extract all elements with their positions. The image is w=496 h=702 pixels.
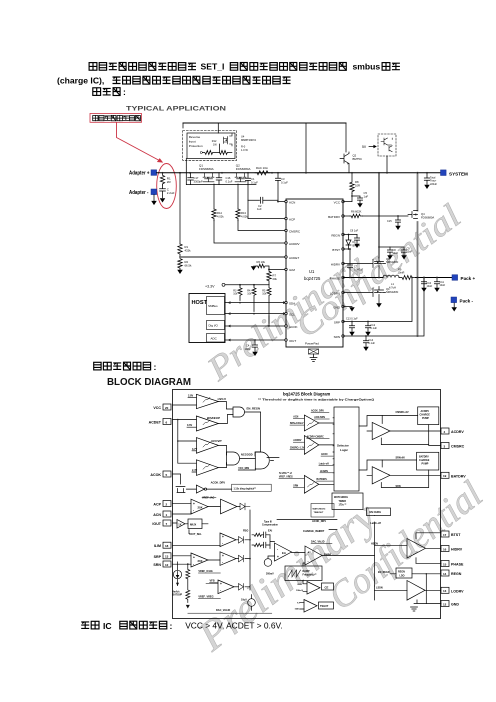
resistor R14 gate	[212, 209, 216, 221]
resistor R3 10k	[238, 285, 242, 301]
svg-text:Adapter +: Adapter +	[129, 171, 150, 177]
comparator WAKEUP	[196, 416, 218, 431]
wire ACDRV	[214, 220, 286, 243]
Selector Logic box	[334, 407, 359, 491]
svg-text:RAC 10m: RAC 10m	[256, 166, 269, 170]
svg-text:10mR: 10mR	[398, 271, 405, 275]
pin GND right	[441, 601, 449, 607]
pin BATDRV	[342, 215, 344, 217]
svg-text:SiR622DN: SiR622DN	[386, 290, 398, 294]
diode C	[239, 584, 244, 591]
svg-text:PHASE: PHASE	[330, 276, 340, 280]
pin REGN right	[441, 570, 449, 576]
resistor R4 10k	[252, 285, 256, 312]
svg-text:ACOVP: ACOVP	[210, 439, 222, 443]
resistor R9 sense	[399, 276, 416, 280]
svg-text:HIDRV: HIDRV	[331, 262, 340, 266]
svg-text:BAT54: BAT54	[353, 244, 361, 247]
svg-text:TIMEOUT: TIMEOUT	[314, 512, 325, 514]
svg-text:HIDRV: HIDRV	[451, 548, 463, 552]
svg-text:100mV: 100mV	[296, 590, 304, 592]
svg-text:TYPICAL APPLICATION: TYPICAL APPLICATION	[126, 106, 226, 113]
svg-text:REGN: REGN	[398, 571, 405, 574]
svg-text:PUMP: PUMP	[422, 463, 429, 466]
svg-text:Protection: Protection	[189, 144, 203, 148]
svg-text:ILIM: ILIM	[289, 268, 295, 272]
resistor divider BATOVP	[186, 564, 190, 602]
amp IAC out	[208, 499, 240, 514]
svg-text:C5: C5	[364, 191, 368, 195]
gate EN REGN	[233, 407, 245, 417]
svg-text:12: 12	[443, 602, 447, 606]
svg-text:LEARN: LEARN	[320, 470, 328, 473]
wire ACDET to pin (gray)	[180, 256, 286, 258]
resistor R1 input	[160, 173, 164, 185]
svg-text:Frequency**: Frequency**	[303, 574, 317, 577]
wire Q2 drop	[345, 123, 347, 152]
svg-text:VREF_ICHG: VREF_ICHG	[198, 570, 212, 573]
driver BATDRV	[372, 467, 390, 484]
svg-text:SRP: SRP	[334, 320, 340, 324]
svg-text:19: 19	[443, 474, 447, 478]
pin ILIM	[285, 268, 287, 270]
svg-text:5V: 5V	[362, 145, 367, 149]
svg-text:4.02k: 4.02k	[241, 214, 248, 218]
svg-text:+: +	[193, 502, 195, 506]
wire VCC net	[343, 194, 352, 202]
resistor R2 66.5k	[178, 259, 182, 270]
svg-text:10uF: 10uF	[427, 285, 433, 288]
svg-text:13: 13	[443, 589, 447, 593]
svg-text:UVLO: UVLO	[218, 397, 227, 401]
svg-text:-: -	[308, 559, 309, 563]
wire rail to protection box	[217, 123, 219, 133]
svg-text:REGN: REGN	[331, 233, 340, 237]
paragraph line 1 CJK run B	[230, 63, 346, 71]
svg-text:C17: C17	[194, 176, 199, 180]
main rail wire	[157, 172, 440, 174]
HOST block	[189, 294, 225, 343]
svg-text:200mV: 200mV	[266, 573, 274, 576]
wire BATDRV	[343, 215, 350, 217]
svg-text:0.1uF: 0.1uF	[226, 179, 233, 183]
svg-text:72.26% ** of: 72.26% ** of	[279, 473, 292, 475]
svg-text:1uF: 1uF	[364, 194, 369, 198]
transistor Q6 low side	[343, 287, 386, 304]
svg-text:SRN: SRN	[153, 563, 161, 567]
pin BATDRV right	[441, 472, 449, 478]
svg-text:C16: C16	[226, 176, 231, 180]
wire SDA	[225, 302, 286, 304]
bottom line CJK run H	[120, 621, 167, 629]
resistor R5 10k	[267, 285, 271, 323]
svg-text:Latch-off: Latch-off	[370, 522, 381, 525]
pin ACDRV	[285, 242, 287, 244]
deglitch box	[232, 484, 272, 491]
wire ILIM	[173, 544, 221, 546]
wire ACN	[278, 201, 286, 203]
wire mid drop	[305, 123, 307, 173]
IC boundary frame	[173, 390, 441, 619]
svg-text:ACDRV: ACDRV	[289, 242, 299, 246]
wire top rail	[183, 122, 346, 124]
svg-text:HSON: HSON	[371, 543, 378, 546]
svg-text:GND: GND	[451, 603, 459, 607]
pin ACP	[163, 501, 171, 507]
pin ACDRV right	[441, 428, 449, 434]
svg-text:17: 17	[443, 533, 447, 537]
ground adapter-	[152, 201, 156, 204]
input caps C8 C9b	[379, 246, 404, 248]
capacitor C4 100pF	[252, 340, 257, 351]
200mV source EA	[264, 559, 272, 567]
heading 内部主要原理: CJK run F	[94, 362, 151, 370]
svg-text:BTST: BTST	[332, 248, 340, 252]
svg-text:ACOK: ACOK	[150, 473, 161, 477]
svg-text:R8: R8	[355, 180, 359, 184]
wire gate Q4	[363, 215, 409, 217]
svg-text:14: 14	[443, 572, 447, 576]
pin SRN	[342, 335, 344, 337]
svg-text:C13 0.1uF: C13 0.1uF	[346, 318, 358, 321]
svg-text:WATCHDOG: WATCHDOG	[334, 496, 348, 499]
svg-text:SRP: SRP	[154, 555, 162, 559]
svg-text:Logic: Logic	[340, 448, 348, 452]
pin VCC	[163, 404, 171, 410]
IC U1 bq24725 outline	[286, 199, 343, 347]
wire top rail drop left	[182, 123, 184, 128]
capacitor C9 1uF	[354, 235, 359, 244]
svg-text:BLOCK DIAGRAM: BLOCK DIAGRAM	[107, 377, 191, 388]
svg-text:175s **: 175s **	[339, 504, 347, 507]
wire adapter- to gnd	[153, 195, 155, 201]
amp SRP SRN 20X	[191, 553, 208, 567]
transistor Q3 high side	[343, 258, 386, 278]
diode B	[239, 555, 244, 562]
driver LODRV	[407, 581, 425, 601]
wire IOUT	[225, 339, 286, 341]
DigIO box	[207, 321, 225, 330]
svg-text:CE: CE	[325, 585, 329, 589]
compensation network	[252, 532, 270, 538]
svg-text:2R: 2R	[167, 180, 172, 184]
svg-text:-: -	[222, 542, 223, 546]
svg-text:VCC: VCC	[153, 406, 161, 410]
bottom line CJK run G	[81, 621, 99, 629]
pin ACN	[163, 511, 171, 517]
svg-text:-: -	[193, 509, 194, 513]
Adapter + terminal	[151, 170, 157, 176]
svg-text:3300pF: 3300pF	[194, 179, 203, 183]
capacitor C17 3300pF	[188, 173, 194, 185]
comparator 2.4V	[196, 460, 218, 476]
amp C out	[234, 586, 239, 588]
svg-text:66.5k: 66.5k	[185, 263, 192, 267]
capacitor C10	[421, 278, 426, 288]
capacitor C7 0.047uF	[347, 249, 352, 278]
pin CMSRC right	[441, 443, 449, 449]
svg-text:2.4V: 2.4V	[192, 469, 197, 472]
wire ACDET bus	[177, 420, 179, 464]
pin HIDRV right	[441, 546, 449, 552]
svg-text:ACOK_DRV: ACOK_DRV	[312, 520, 326, 523]
svg-text:0.1uF: 0.1uF	[371, 327, 378, 330]
pin SRN	[163, 561, 171, 567]
transistor Q2b FDS6680A	[235, 173, 246, 182]
red annotation box	[90, 114, 142, 123]
resistor R13 gate	[236, 209, 240, 221]
svg-text:SiR622DN: SiR622DN	[386, 260, 398, 264]
svg-text:C4: C4	[246, 344, 250, 348]
svg-text:Type III: Type III	[264, 522, 272, 524]
svg-text:+: +	[222, 535, 224, 539]
svg-text:CMSRC+6V: CMSRC+6V	[396, 411, 409, 414]
pin PHASE right	[441, 561, 449, 567]
svg-text:1uF: 1uF	[257, 207, 262, 211]
svg-text:U4: U4	[241, 135, 245, 139]
pin HIDRV	[342, 262, 344, 264]
svg-text:+: +	[193, 555, 195, 559]
EN CHRG box	[367, 508, 391, 516]
pin LODRV right	[441, 587, 449, 593]
svg-text:PowerPad: PowerPad	[305, 342, 319, 346]
node adapter junction	[162, 172, 164, 174]
pin BTST	[342, 248, 344, 250]
transistor U4 in protection box	[224, 134, 233, 147]
svg-text:Pack -: Pack -	[460, 299, 474, 304]
svg-text:FBO: FBO	[243, 530, 248, 533]
EAI bus	[236, 510, 250, 590]
svg-text:ACDRV-CMSRC: ACDRV-CMSRC	[307, 435, 325, 438]
svg-text:ACN: ACN	[289, 200, 295, 204]
svg-text:1X: 1X	[178, 522, 181, 526]
svg-text:1W: 1W	[213, 143, 217, 146]
wire 5V box to rail	[386, 156, 388, 173]
svg-text:10uF: 10uF	[407, 251, 413, 254]
wire REGN net	[343, 234, 357, 236]
svg-text:220uF: 220uF	[430, 183, 438, 186]
pin ACDET	[163, 419, 171, 425]
svg-text:LSON: LSON	[376, 586, 383, 589]
right bus	[374, 516, 376, 601]
10uA source	[248, 599, 256, 607]
svg-text:R14: R14	[217, 211, 222, 215]
svg-text:0.047uF: 0.047uF	[354, 269, 364, 272]
svg-text:0.6V: 0.6V	[187, 424, 192, 427]
capacitor C input 2.2uF	[160, 185, 166, 198]
svg-text:R12: R12	[212, 140, 217, 143]
svg-text:VREF_VREG: VREF_VREG	[279, 477, 293, 479]
svg-text:ACN: ACN	[153, 513, 161, 517]
svg-text:FDS6680A: FDS6680A	[199, 167, 214, 171]
RAMP box	[285, 566, 322, 581]
svg-text:TJ: TJ	[297, 603, 300, 605]
svg-text:ACDET: ACDET	[149, 421, 162, 425]
svg-text:SRN: SRN	[334, 335, 340, 339]
resistor R1 432k	[178, 244, 182, 256]
ACDRV charge pump	[418, 407, 439, 425]
resistor R6 602k	[350, 214, 363, 218]
ADC box	[207, 334, 225, 343]
svg-text:2.8V: 2.8V	[188, 394, 193, 397]
svg-text:10uA: 10uA	[241, 599, 247, 602]
arrow 5V	[369, 145, 376, 147]
svg-text:VCC: VCC	[334, 200, 341, 204]
svg-text:VCC_MIN: VCC_MIN	[238, 467, 249, 470]
dashed box Reverse Input Protection	[183, 131, 237, 161]
comparator CE	[307, 582, 320, 595]
svg-text:BATDRV: BATDRV	[328, 215, 340, 219]
svg-text:150C: 150C	[295, 609, 301, 611]
wire ACP ACN	[173, 504, 192, 514]
pin CMSRC	[285, 229, 287, 231]
pin REGN	[342, 233, 344, 235]
svg-text:EN_REGN: EN_REGN	[378, 571, 390, 574]
ground input cap	[160, 199, 164, 202]
svg-text:100p: 100p	[245, 347, 251, 351]
svg-text:bq24725: bq24725	[304, 276, 321, 281]
svg-text:ILIM: ILIM	[298, 584, 303, 586]
svg-text:-: -	[193, 562, 194, 566]
dashed box 5V circuit	[378, 134, 396, 156]
driver ACDRV	[372, 422, 390, 439]
transistor Q1 FDS6680A	[203, 173, 214, 182]
svg-text:bq24725 Block Diagram: bq24725 Block Diagram	[283, 392, 331, 397]
svg-text:HOST: HOST	[192, 300, 208, 306]
svg-text:DAC_VALID: DAC_VALID	[216, 609, 230, 612]
pin SCL	[285, 312, 287, 314]
svg-text:R6 10k: R6 10k	[257, 260, 266, 264]
paragraph line 1 CJK run A	[89, 63, 196, 71]
svg-text:GND: GND	[333, 305, 341, 309]
svg-text:+3.3V: +3.3V	[205, 284, 215, 288]
buffer 1X	[177, 520, 185, 529]
red ellipse	[157, 164, 177, 209]
svg-text:SCL: SCL	[289, 312, 295, 316]
comparator PWM	[305, 546, 322, 565]
pin ACOK	[285, 325, 287, 327]
BATDRV charge pump	[417, 452, 439, 470]
svg-text:ACDRV: ACDRV	[293, 439, 302, 442]
svg-text:U1: U1	[309, 269, 315, 274]
svg-text:TSHUT: TSHUT	[320, 605, 329, 608]
svg-text:ACP: ACP	[289, 217, 295, 221]
svg-text:C2: C2	[258, 204, 262, 208]
svg-text:ACOK: ACOK	[289, 325, 298, 329]
comparator ACOVP	[196, 438, 218, 454]
svg-text::: :	[123, 87, 126, 97]
svg-text:16: 16	[443, 547, 447, 551]
capacitor C1 0.1uF	[245, 173, 250, 200]
svg-text:ACN: ACN	[293, 415, 298, 418]
svg-text:ACOC: ACOC	[321, 453, 328, 456]
svg-text:2.2uF: 2.2uF	[167, 191, 175, 195]
pin SRP	[342, 320, 344, 322]
svg-text:DAC_VALID: DAC_VALID	[311, 541, 325, 544]
Pack- terminal	[451, 297, 457, 303]
svg-text:CMSRC: CMSRC	[289, 229, 301, 233]
capacitor C5 1uF	[352, 196, 363, 203]
wire ACP	[248, 200, 286, 218]
resistor R8 10ohm	[350, 173, 354, 194]
svg-text:R7: R7	[273, 274, 277, 278]
svg-text:REGN: REGN	[451, 572, 462, 576]
svg-text:PHASE: PHASE	[451, 563, 464, 567]
svg-text:ACDRV: ACDRV	[451, 430, 464, 434]
svg-text:+: +	[277, 555, 279, 559]
current source 4mA	[173, 570, 181, 578]
resistor R7 ILIM lower	[267, 269, 271, 284]
gate ACGOOD	[227, 452, 240, 465]
wire ILIM	[269, 266, 286, 269]
wire GND pin	[343, 306, 352, 308]
svg-text:R6 602K: R6 602K	[351, 210, 362, 214]
ACOK pulldown	[173, 474, 186, 493]
svg-text:SMBus: SMBus	[208, 304, 218, 308]
svg-text:BATDRV: BATDRV	[451, 475, 466, 479]
ground ACDET divider	[178, 270, 182, 273]
svg-text:+: +	[308, 551, 310, 555]
wire DAC_VALID bottom	[188, 612, 272, 614]
svg-text:12: 12	[165, 563, 169, 567]
svg-text:SDA: SDA	[289, 301, 295, 305]
ground fig2	[411, 607, 418, 611]
svg-text:0.1uF: 0.1uF	[281, 180, 288, 184]
svg-text:IOUT: IOUT	[289, 339, 296, 343]
pin ACOK	[163, 471, 171, 477]
amp B	[220, 552, 236, 566]
svg-text:1.15s ding deglitch**: 1.15s ding deglitch**	[234, 487, 257, 490]
SYSTEM terminal	[441, 170, 447, 176]
svg-text:EAI: EAI	[268, 530, 272, 533]
svg-text:ACP: ACP	[153, 503, 161, 507]
transistor pair in 5V box	[381, 138, 392, 152]
pin BTST right	[441, 531, 449, 537]
svg-text::: :	[170, 621, 173, 631]
transistor Q4 FDS6680A	[408, 173, 418, 336]
svg-text:Pack +: Pack +	[461, 276, 476, 281]
svg-text:Compensation: Compensation	[262, 524, 279, 527]
inner protection box	[187, 133, 235, 159]
svg-text:SYSTEM: SYSTEM	[449, 171, 468, 176]
paragraph line 2 CJK run D	[113, 76, 291, 84]
capacitor C13	[349, 322, 354, 332]
pin IOUT	[285, 339, 287, 341]
heading 原理图: CJK run E	[93, 88, 120, 96]
capacitor C11	[434, 278, 439, 288]
MUX box	[188, 519, 202, 529]
driver HIDRV	[407, 539, 426, 559]
svg-text:BMT5C: BMT5C	[353, 157, 362, 161]
svg-text:NCGOOD: NCGOOD	[241, 453, 253, 457]
svg-text:4.02k: 4.02k	[217, 214, 224, 218]
capacitor C14	[363, 336, 368, 347]
svg-text:PWM: PWM	[324, 553, 332, 557]
svg-text:0.1uF: 0.1uF	[369, 342, 376, 345]
svg-text:ACOK_DRV: ACOK_DRV	[311, 409, 324, 412]
svg-text:Selector: Selector	[337, 444, 350, 448]
svg-text:smbus: smbus	[353, 62, 381, 72]
svg-text:R-0: R-0	[241, 145, 246, 149]
diode ICHG	[239, 537, 244, 544]
amp EA	[275, 543, 292, 561]
inductor L1	[383, 275, 399, 277]
svg-text:ADC: ADC	[211, 337, 218, 341]
svg-text:20X: 20X	[198, 559, 203, 563]
svg-text:C9 1uF: C9 1uF	[350, 230, 359, 233]
wire BTST net	[343, 248, 350, 250]
comparator TSHUT	[304, 600, 317, 613]
